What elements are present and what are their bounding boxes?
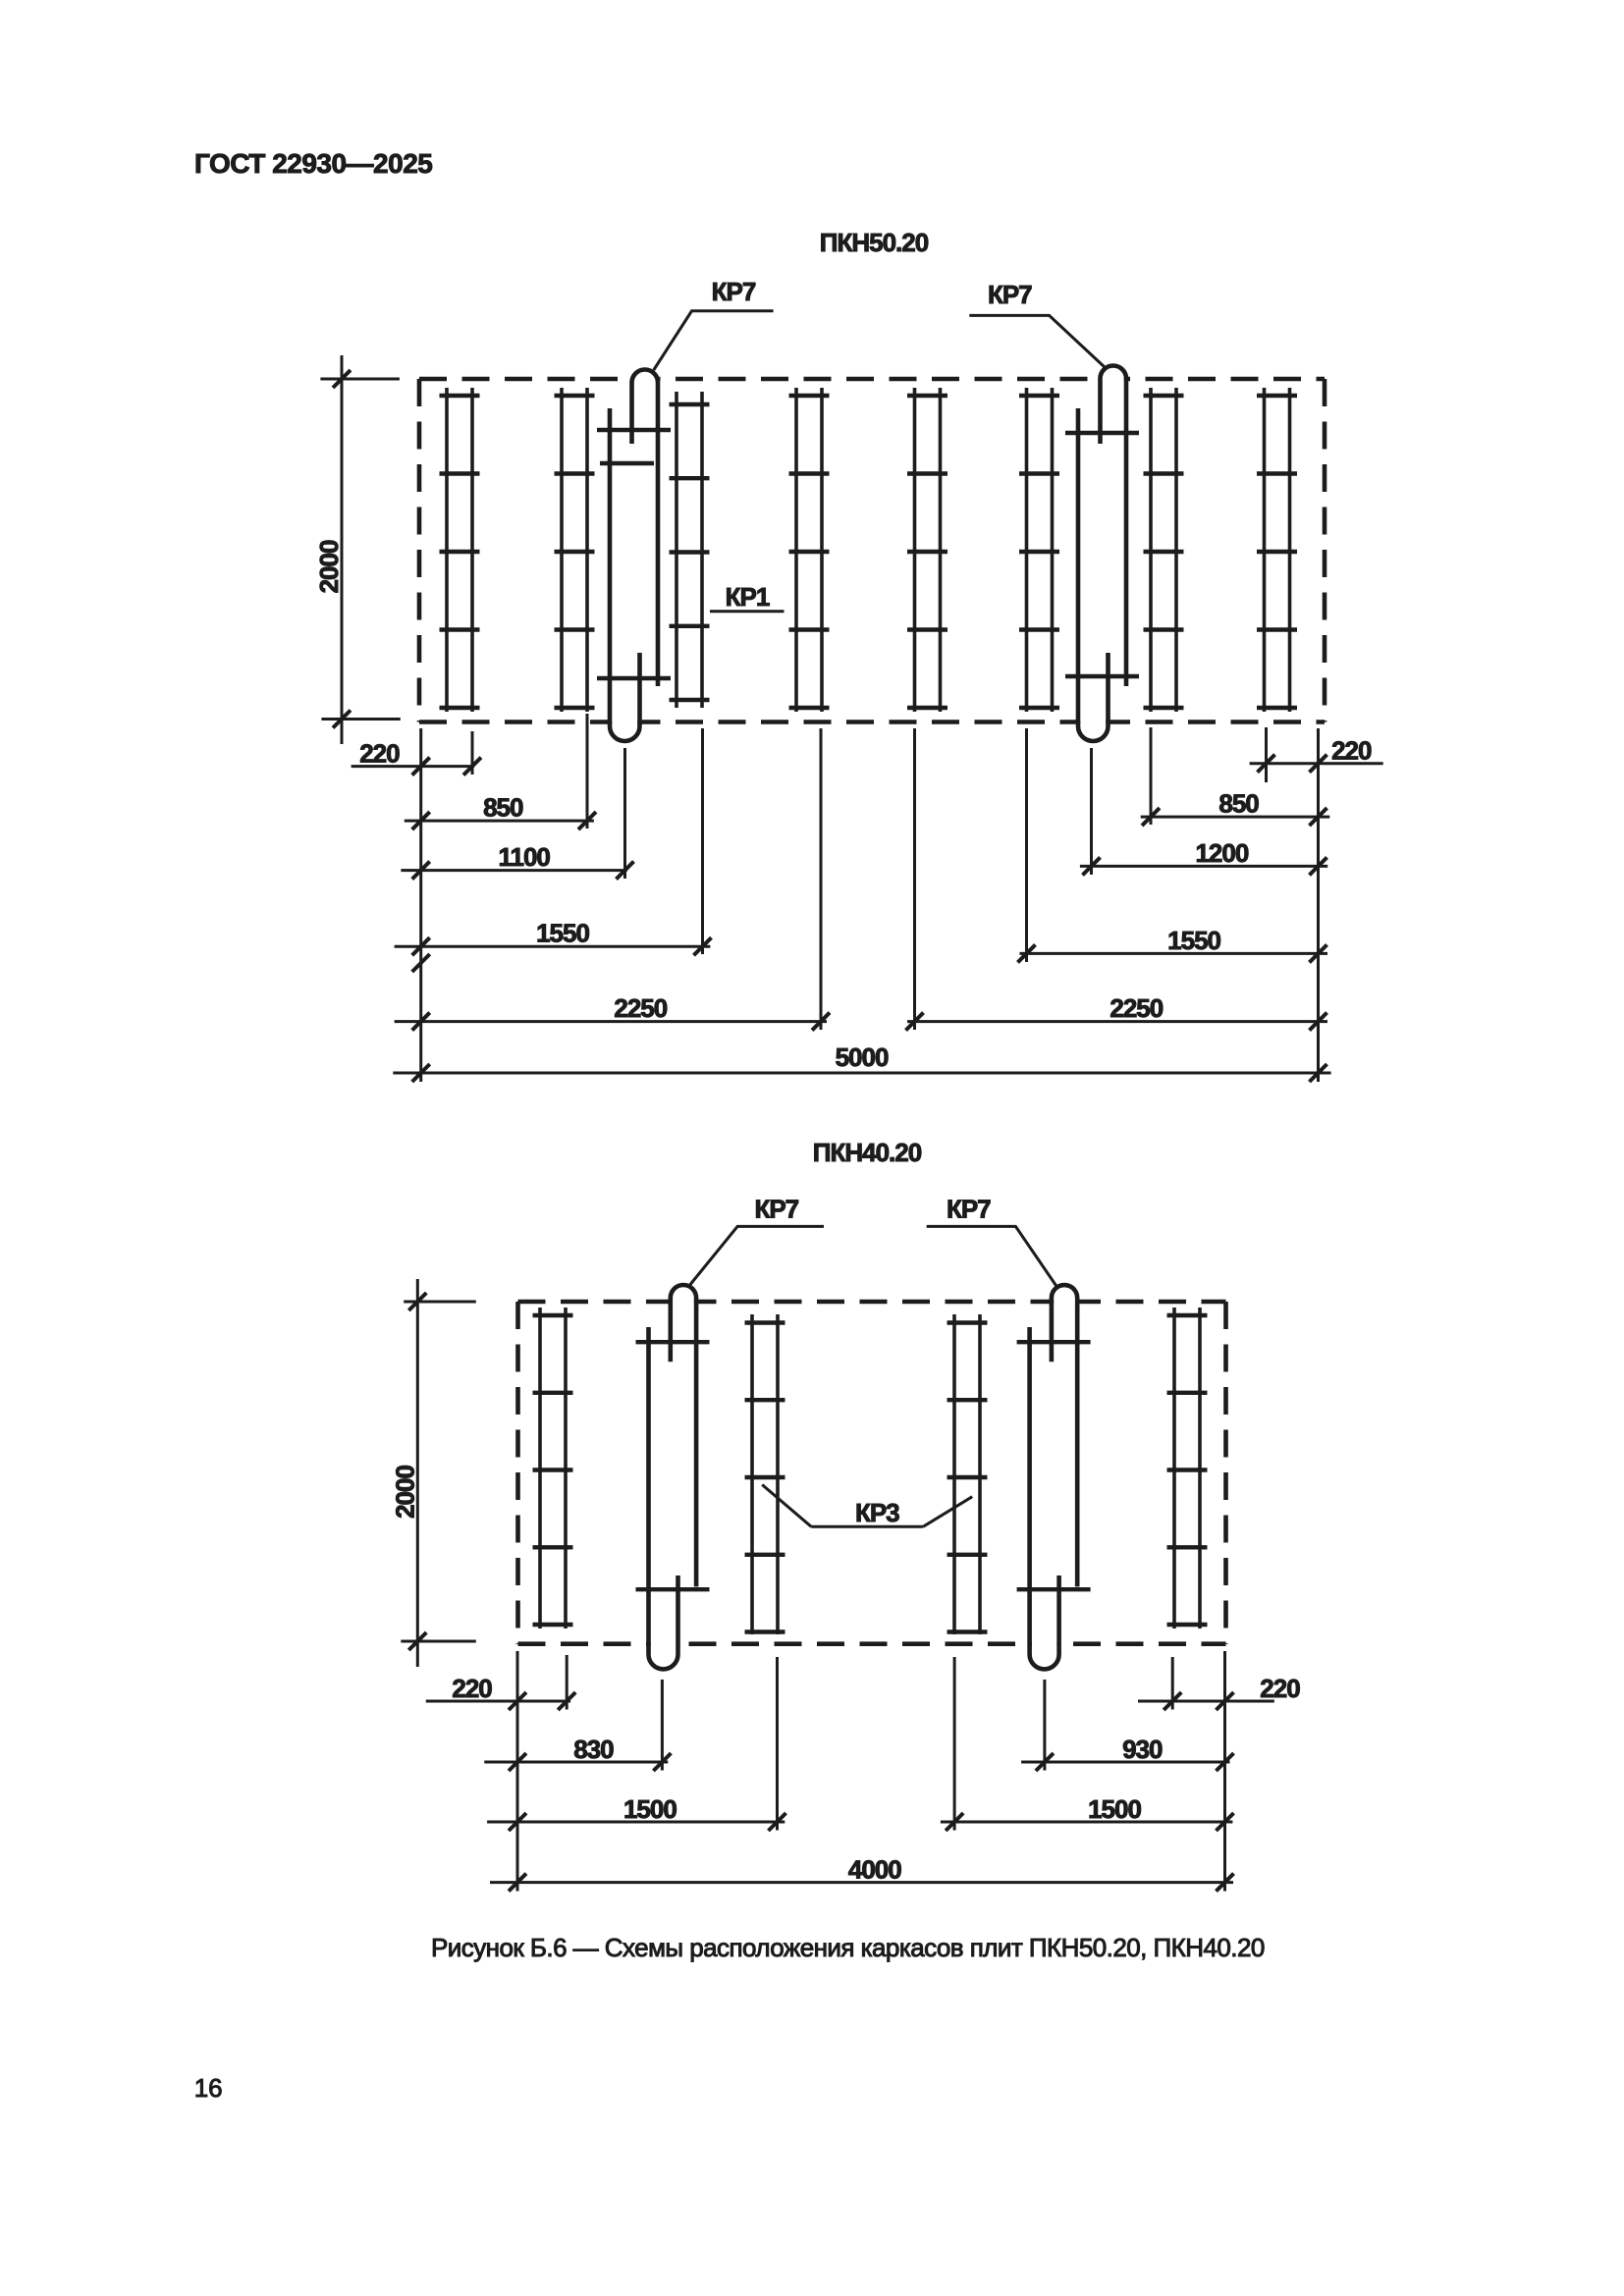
svg-text:КР7: КР7 (947, 1195, 991, 1224)
svg-text:2000: 2000 (314, 540, 344, 593)
svg-text:850: 850 (1218, 789, 1259, 819)
svg-text:5000: 5000 (836, 1042, 889, 1072)
svg-text:2250: 2250 (614, 993, 667, 1023)
svg-text:16: 16 (194, 2073, 223, 2103)
svg-text:1550: 1550 (536, 919, 589, 948)
svg-text:ПКН40.20: ПКН40.20 (813, 1138, 922, 1167)
svg-text:220: 220 (359, 739, 400, 769)
svg-text:830: 830 (573, 1735, 614, 1764)
svg-text:2250: 2250 (1110, 993, 1163, 1023)
svg-text:КР3: КР3 (855, 1498, 899, 1527)
svg-text:Рисунок Б.6 — Схемы расположен: Рисунок Б.6 — Схемы расположения каркасо… (431, 1933, 1265, 1962)
svg-text:1100: 1100 (498, 842, 550, 872)
svg-text:ГОСТ 22930—2025: ГОСТ 22930—2025 (194, 148, 432, 179)
svg-text:1500: 1500 (1088, 1794, 1141, 1824)
svg-text:1550: 1550 (1167, 926, 1220, 955)
svg-text:КР1: КР1 (726, 582, 770, 612)
svg-text:220: 220 (452, 1674, 492, 1703)
svg-text:2000: 2000 (391, 1466, 420, 1519)
svg-text:4000: 4000 (848, 1855, 901, 1885)
svg-text:КР7: КР7 (712, 277, 756, 306)
svg-text:220: 220 (1331, 736, 1372, 766)
svg-text:КР7: КР7 (754, 1195, 798, 1224)
svg-text:1200: 1200 (1195, 838, 1248, 868)
svg-text:930: 930 (1122, 1735, 1163, 1764)
svg-text:КР7: КР7 (988, 280, 1032, 309)
svg-text:1500: 1500 (623, 1794, 677, 1824)
svg-text:220: 220 (1260, 1674, 1300, 1703)
svg-text:850: 850 (483, 793, 523, 823)
svg-text:ПКН50.20: ПКН50.20 (820, 228, 929, 257)
